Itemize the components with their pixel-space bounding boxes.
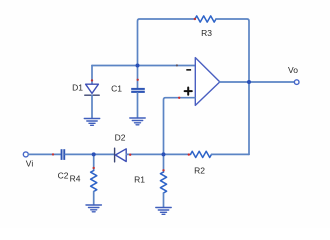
resistor R2: [191, 151, 212, 157]
wire R1 to ground: [163, 193, 165, 207]
wire C1 to ground: [137, 93, 139, 118]
wire R1 branch: [163, 154, 165, 172]
svg-text:R3: R3: [201, 28, 212, 38]
wire non-inverting input: [164, 98, 196, 155]
pin dot op-amp minus input: [176, 64, 178, 66]
wire C1 branch down from junction: [137, 66, 139, 88]
svg-text:C2: C2: [58, 171, 69, 181]
wire op-amp output to Vo: [220, 81, 294, 83]
pin dot right of D2: [129, 154, 131, 156]
svg-text:R1: R1: [134, 175, 145, 185]
wire R4 branch: [93, 154, 95, 170]
node junction R1: [162, 152, 166, 156]
diode D2: [115, 148, 127, 162]
wire C2 to D2: [65, 153, 114, 155]
wire inverting input rail: [92, 65, 195, 67]
svg-text:Vo: Vo: [288, 65, 298, 75]
wire top loop left vertical + top rail to R3: [138, 19, 196, 66]
pin dot left of C2: [52, 153, 54, 155]
node junction R4: [92, 152, 96, 156]
pin dot R4 top: [93, 167, 95, 169]
op-amp minus sign: [186, 69, 191, 71]
terminal Vo: [294, 80, 299, 85]
capacitor C1: [131, 88, 145, 93]
op-amp U1: [195, 58, 220, 106]
resistor R1: [160, 172, 166, 193]
capacitor C2: [61, 149, 66, 160]
wire Vi to C2: [28, 153, 60, 155]
diode D1: [85, 84, 99, 95]
pin dot R1 top: [162, 169, 164, 171]
pin dot R3 left: [194, 18, 196, 20]
node junction minus-net: [136, 64, 140, 68]
ground under C1: [130, 118, 145, 125]
pin dot left of R2: [188, 153, 190, 155]
ground under R1: [156, 208, 171, 215]
wire R2 to right vertical: [212, 153, 250, 155]
terminal Vi: [23, 152, 28, 157]
svg-text:Vi: Vi: [26, 159, 34, 169]
op-amp plus sign: [185, 88, 192, 95]
resistor R3: [195, 16, 216, 22]
wire D1 branch down from inverting rail: [91, 66, 93, 85]
wire D2 to R2: [126, 153, 190, 155]
pin dot op-amp plus input: [178, 97, 180, 99]
ground under R4: [86, 205, 101, 212]
node junction output: [247, 80, 251, 84]
svg-text:D2: D2: [115, 133, 126, 143]
wire R4 to ground: [93, 192, 95, 205]
wire D1 to ground: [91, 95, 93, 118]
pin dot D1 top: [91, 79, 93, 81]
svg-text:R2: R2: [194, 166, 205, 176]
svg-text:R4: R4: [70, 174, 81, 184]
pin dot C1 top: [137, 79, 139, 81]
resistor R4: [91, 171, 97, 192]
svg-text:C1: C1: [111, 84, 122, 94]
ground under D1: [84, 119, 99, 126]
wire top rail right of R3 and right vertical down: [216, 19, 249, 154]
svg-text:D1: D1: [72, 83, 83, 93]
